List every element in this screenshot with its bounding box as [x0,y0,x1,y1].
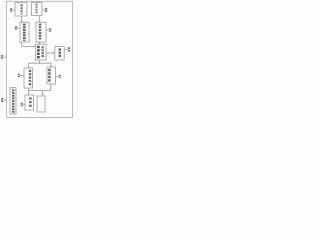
block 15 vertical text column 2 [42,46,44,57]
leader tick for label 21 [4,99,7,101]
label 14 [49,28,51,30]
block 13 (left second-row box) [20,22,29,42]
leader tick for label 17 [56,75,59,77]
wire arrow block11 -> block13 [21,16,23,21]
block 16 (left third-row box) [24,68,33,88]
label 11 [10,8,12,10]
block 15 vertical text column 1 [37,46,40,59]
leader tick for label 10 [4,56,7,58]
label 18 [68,47,70,49]
leader tick for label 16 [20,75,24,77]
wire arrow block16 -> block19 [28,88,30,94]
label 21 (outside border) [1,98,3,100]
label 12 [45,8,47,10]
label 19 [21,103,23,105]
leader tick for label 19 [23,104,25,106]
label 13 [15,26,17,28]
outer enclosure box 10 [7,1,73,117]
block 18 (display, right of block15) [55,47,64,60]
block 15 (AV decoder, two text columns) [36,44,47,60]
block 17 vertical text [48,69,50,83]
block 20 (bottom-middle box, empty) [37,96,45,112]
block 19 (bottom-left box) [25,95,34,110]
leader tick for label 18 [64,49,67,51]
label 16 [18,74,20,76]
block 12 (demodulator, top-middle) [32,3,43,16]
block 13 vertical text [23,24,26,41]
wire arrow block15 -> block18 (horizontal) [46,52,53,54]
wire block15 bottom split to block16 and block17 [29,60,40,66]
leader tick for label 14 [46,29,49,31]
label 17 [59,75,61,77]
label 10 (figure reference, outside left middle) [1,55,3,57]
block 19 vertical text [29,97,31,107]
block 18 vertical text [59,48,61,58]
wire block13 -> block15 (down, right, arrowhead into left side) [22,42,34,47]
wire arrow block12 -> block14 [39,16,41,22]
leader tick for label 13 [17,27,20,29]
block 12 vertical text [35,4,37,15]
block 17 (right third-row box) [47,67,56,84]
block 11 (tuner, top-left) [15,3,27,17]
wire bus segment joining block16 drop [29,90,43,92]
leader tick for label 11 [13,9,15,11]
block 14 (middle second-row box) [36,22,46,42]
wire arrow block14 -> block15 [39,42,41,43]
wire block17 -> bus -> block20 [43,84,51,94]
wire branch right to block17 [40,63,51,65]
block 11 vertical text [20,4,22,14]
block 14 vertical text [39,24,42,41]
leader tick for label 12 [42,9,45,11]
block 21 (tall narrow box, bottom-left, channel select) [10,88,16,114]
block 16 vertical text [29,70,31,86]
block 21 vertical text [12,89,14,112]
